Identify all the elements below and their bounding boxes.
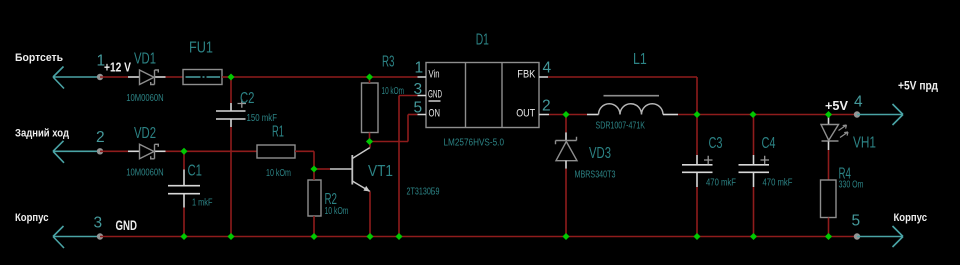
wire out rail to VH1 junction <box>753 114 829 116</box>
wire to pin 5 <box>408 114 418 116</box>
svg-text:OUT: OUT <box>516 108 535 120</box>
wire ON bend up <box>407 115 409 142</box>
wire base junction to VT1 base <box>314 168 330 170</box>
resistor R2 <box>308 180 321 216</box>
svg-text:2T3130Б9: 2T3130Б9 <box>407 187 440 198</box>
junction rail / VT1 emitter <box>366 233 373 240</box>
svg-text:3: 3 <box>94 215 103 232</box>
fuse FU1 <box>183 70 222 85</box>
resistor R1 <box>257 145 295 158</box>
svg-text:470 mkF: 470 mkF <box>763 178 793 189</box>
svg-text:Vin: Vin <box>429 69 440 81</box>
node 4 <box>854 111 860 117</box>
wire GND drop to ground rail <box>398 96 400 237</box>
junction top rail / R3 <box>366 73 373 80</box>
off-sheet connector arrow Бортсеть <box>53 67 100 89</box>
junction out / VD3 <box>562 111 569 118</box>
junction R3 bottom / collector / ON wire <box>366 138 373 145</box>
svg-text:D1: D1 <box>476 32 489 49</box>
node 2 <box>97 148 103 154</box>
svg-text:10 kOm: 10 kOm <box>266 168 291 179</box>
svg-text:+5V: +5V <box>825 99 849 113</box>
wire VT1 collector to R3 junction <box>369 142 371 148</box>
D1 pin stub 1 <box>418 76 427 78</box>
svg-text:VT1: VT1 <box>368 163 393 180</box>
node 5 <box>854 233 860 239</box>
svg-text:4: 4 <box>854 94 863 111</box>
junction rail / R2 <box>310 233 317 240</box>
svg-text:Корпус: Корпус <box>15 212 49 224</box>
svg-text:470 mkF: 470 mkF <box>706 178 736 189</box>
svg-text:C1: C1 <box>188 163 203 180</box>
off-sheet connector arrow +5V прд <box>857 104 903 125</box>
wire R2 to ground rail <box>313 216 315 237</box>
wire ground rail <box>100 236 857 238</box>
junction rail / C3 <box>693 233 700 240</box>
svg-text:1 mkF: 1 mkF <box>192 198 213 209</box>
wire L1 to FBK junction <box>678 114 697 116</box>
svg-text:Задний ход: Задний ход <box>15 128 69 140</box>
wire R3 top lead <box>369 77 371 83</box>
off-sheet connector arrow Корпус right <box>857 226 903 247</box>
wire C2 to ground rail <box>230 127 232 237</box>
svg-text:330 Om: 330 Om <box>839 180 864 191</box>
svg-text:Корпус: Корпус <box>894 212 928 224</box>
wire C2 branch from top rail <box>230 77 232 103</box>
wire VT1 emitter to ground rail <box>369 192 371 237</box>
diode VD2 (Schottky) <box>128 144 166 159</box>
svg-text:5: 5 <box>414 100 423 117</box>
node 1 <box>97 74 103 80</box>
svg-text:GND: GND <box>116 217 138 233</box>
svg-text:+12 V: +12 V <box>104 61 132 75</box>
junction rail / R4 <box>825 233 832 240</box>
svg-text:R1: R1 <box>272 124 284 141</box>
svg-text:VD2: VD2 <box>134 125 156 142</box>
wire R4 to ground rail <box>828 218 830 237</box>
wire FU1 to junction <box>222 76 231 78</box>
wire R3 junction to pin 1 <box>370 76 418 78</box>
svg-text:5: 5 <box>852 213 861 230</box>
wire VH1 to R4 <box>828 150 830 180</box>
svg-text:GND: GND <box>428 89 442 101</box>
wire R3 bottom lead <box>369 133 371 142</box>
capacitor C2 <box>216 100 246 128</box>
wire FBK to bend <box>548 76 697 78</box>
junction rail / C1 <box>180 233 187 240</box>
D1 pin stub 4 <box>539 76 548 78</box>
svg-text:FU1: FU1 <box>189 40 213 57</box>
wire base junction to R2 <box>313 169 315 180</box>
junction out rail / C4 <box>749 111 756 118</box>
svg-text:Бортсеть: Бортсеть <box>15 52 63 64</box>
resistor R4 <box>821 180 837 218</box>
wire pin 3 to GND drop <box>399 95 418 97</box>
junction rail / VD3 <box>562 233 569 240</box>
off-sheet connector arrow Задний ход <box>53 141 100 163</box>
IC D1 (voltage regulator) <box>426 63 539 128</box>
junction row2 / C1 <box>180 148 187 155</box>
svg-text:C2: C2 <box>240 90 255 107</box>
wire FBK bend down to out rail <box>696 77 698 115</box>
svg-text:MBRS340T3: MBRS340T3 <box>575 170 616 181</box>
wire R1 to bend <box>295 150 314 152</box>
svg-text:2: 2 <box>542 98 551 115</box>
svg-text:VD1: VD1 <box>134 51 156 68</box>
wire C1 junction to R1 <box>184 150 257 152</box>
svg-text:150 mkF: 150 mkF <box>247 113 278 124</box>
diode VD1 (Schottky) <box>128 70 166 85</box>
wire C1 to ground rail <box>183 208 185 237</box>
svg-text:4: 4 <box>543 60 552 77</box>
capacitor C1 <box>168 170 200 208</box>
inductor L1 <box>587 96 678 115</box>
diode VD3 (Schottky, pointing up) <box>556 115 578 237</box>
junction rail / C4 <box>750 233 757 240</box>
LED VH1 <box>821 115 848 151</box>
off-sheet connector arrow Корпус left <box>53 226 100 248</box>
wire out rail to C4 junction <box>697 114 753 116</box>
svg-text:2: 2 <box>96 129 105 146</box>
svg-text:L1: L1 <box>633 51 647 68</box>
junction base / R2 <box>310 165 317 172</box>
D1 pin stub 5 <box>418 114 427 116</box>
wire OUT to VD3 junction <box>549 114 566 116</box>
wire node1 to VD1 <box>100 76 128 78</box>
svg-text:ON: ON <box>429 108 441 120</box>
svg-text:C4: C4 <box>762 135 776 152</box>
wire bend down to base junction <box>313 151 315 169</box>
svg-text:C3: C3 <box>709 135 723 152</box>
svg-text:10M0060N: 10M0060N <box>126 168 163 179</box>
wire VD3 junction to L1 <box>566 114 587 116</box>
D1 pin stub 3 <box>418 95 427 97</box>
svg-text:SDR1007-471K: SDR1007-471K <box>596 121 646 132</box>
junction rail / D1 GND <box>395 233 402 240</box>
svg-text:LM2576HVS-5.0: LM2576HVS-5.0 <box>444 138 505 149</box>
junction out rail / VH1 <box>825 111 832 118</box>
node 3 <box>97 233 103 239</box>
junction rail / C2 <box>227 233 234 240</box>
junction out rail / FBK / C3 <box>693 111 700 118</box>
svg-text:3: 3 <box>414 81 423 98</box>
svg-text:10M0060N: 10M0060N <box>126 93 163 104</box>
junction top rail / C2 <box>227 73 234 80</box>
transistor VT1 <box>330 148 370 192</box>
wire C1 branch <box>183 151 185 169</box>
wire top rail junction to R3 junction <box>231 76 370 78</box>
svg-text:1: 1 <box>415 60 424 77</box>
svg-text:FBK: FBK <box>517 69 536 81</box>
wire VD2 to C1 junction <box>166 150 185 152</box>
wire VD1 to FU1 <box>166 76 184 78</box>
wire junction to ON bend <box>370 141 409 143</box>
svg-text:10 kOm: 10 kOm <box>325 206 349 217</box>
svg-text:VD3: VD3 <box>589 145 611 162</box>
svg-text:R3: R3 <box>382 54 395 71</box>
wire out rail to node 4 <box>829 114 858 116</box>
D1 pin stub 2 <box>539 114 549 116</box>
capacitor C4 <box>739 115 770 237</box>
resistor R3 <box>362 83 379 133</box>
capacitor C3 <box>682 115 713 237</box>
svg-text:VH1: VH1 <box>853 135 876 152</box>
svg-text:+5V прд: +5V прд <box>898 81 939 93</box>
wire node2 to VD2 <box>100 150 128 152</box>
